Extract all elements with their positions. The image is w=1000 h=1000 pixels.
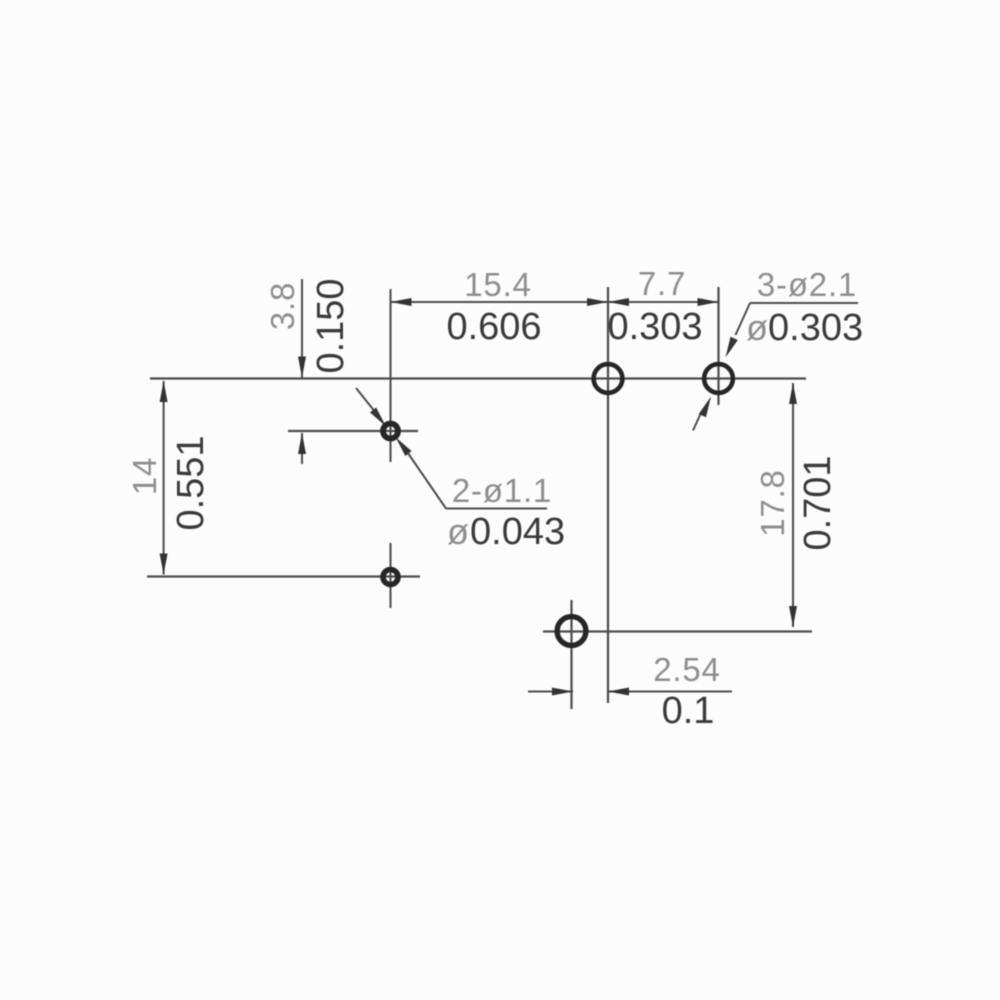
main horizontal datum line (top edge): [150, 377, 806, 379]
dimension line 14 / 0.551 (left vertical): [163, 381, 165, 575]
hole H3 (small): [383, 424, 398, 439]
left extension line through hole H4: [147, 575, 420, 577]
dimension line 15.4 / 7.7 (top): [391, 301, 719, 303]
vertical centerline through hole H1: [607, 287, 609, 703]
hole H5 (big, bottom): [557, 617, 586, 646]
hole H1 (big, on datum line): [594, 364, 623, 393]
svg-text:0.701: 0.701: [797, 455, 839, 550]
svg-text:15.4: 15.4: [464, 266, 531, 303]
vertical centerline through hole H5: [570, 600, 572, 709]
svg-text:14: 14: [126, 457, 163, 495]
hole H2 (big, on datum line right): [704, 364, 733, 393]
underline of label 2-o1.1: [446, 508, 547, 510]
svg-text:17.8: 17.8: [754, 469, 791, 536]
svg-text:0.1: 0.1: [662, 690, 715, 732]
svg-text:0.551: 0.551: [170, 435, 212, 530]
svg-text:0.303: 0.303: [768, 307, 863, 349]
svg-text:2.54: 2.54: [653, 651, 720, 688]
vertical centerline through H3: [390, 289, 392, 462]
svg-text:0.606: 0.606: [446, 306, 541, 348]
leader from hole H3 to label 2-o1.1: [407, 452, 446, 509]
hole H4 (small, lower): [383, 570, 398, 585]
svg-text:2-ø1.1: 2-ø1.1: [452, 472, 552, 509]
svg-text:0.043: 0.043: [470, 511, 565, 553]
dimension line 17.8 / 0.701 (right vertical): [792, 383, 794, 627]
svg-text:ø: ø: [447, 511, 469, 552]
dimension line 2.54 / 0.1 (bottom, outside arrows): [528, 691, 573, 693]
underline of label 3-o2.1: [750, 302, 858, 304]
dimension line 3.8 / 0.150 (short vertical): [301, 279, 303, 378]
extension line through hole H5 (bottom): [543, 630, 812, 632]
leader to hole H3 upper-left: [356, 388, 374, 411]
vertical centerline through hole H2: [717, 287, 719, 405]
svg-text:3-ø2.1: 3-ø2.1: [757, 266, 857, 303]
svg-text:ø: ø: [746, 307, 768, 348]
svg-text:7.7: 7.7: [638, 265, 686, 302]
leader to hole H2 lower-left: [693, 414, 701, 431]
svg-text:3.8: 3.8: [264, 282, 301, 330]
vertical centerline through H4: [390, 543, 392, 608]
svg-text:0.150: 0.150: [310, 278, 352, 373]
leader from label 3-o2.1 to hole H2: [736, 303, 751, 335]
svg-text:0.303: 0.303: [607, 306, 702, 348]
crosshair horizontal through hole H3: [288, 430, 418, 432]
